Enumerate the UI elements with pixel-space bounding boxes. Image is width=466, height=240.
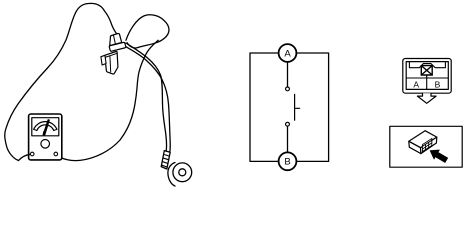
upper barrel seam	[113, 35, 115, 45]
inline connector upper barrel body	[110, 34, 122, 46]
lower barrel side tab	[101, 55, 106, 65]
cavity profile	[409, 62, 445, 68]
relay body right face	[421, 137, 437, 154]
wire loop	[126, 15, 169, 48]
upper switch contact	[286, 87, 290, 91]
svg-text:B: B	[435, 80, 441, 90]
inline connector lower barrel	[105, 51, 118, 74]
twin-line wire to ring terminal (left line)	[126, 43, 167, 151]
cell divider line	[406, 78, 448, 89]
lower barrel seam	[109, 56, 112, 72]
switch lever	[295, 94, 300, 120]
terminal B circle	[279, 152, 297, 170]
svg-text:B: B	[284, 157, 290, 168]
meter left terminal	[30, 152, 34, 156]
ohmmeter body	[29, 114, 62, 160]
wire from A to upper contact	[287, 62, 289, 87]
meter knob	[41, 140, 50, 149]
twin-line wire to ring terminal (right line)	[125, 46, 170, 151]
harness blob outline	[5, 3, 119, 160]
svg-text:A: A	[284, 48, 291, 59]
ring terminal outer circle	[173, 163, 192, 182]
relay body left face	[409, 141, 421, 153]
wire from lower contact to B	[287, 126, 289, 152]
connector pinout inner face	[406, 62, 448, 90]
ring terminal inner hole	[179, 169, 186, 176]
relay body top face	[409, 131, 437, 148]
circuit test box	[250, 53, 329, 161]
meter scale arcs	[34, 122, 57, 130]
ring terminal washer edge (crescent)	[168, 163, 175, 187]
ohmmeter display window	[32, 118, 59, 136]
pointer arrow	[430, 150, 447, 162]
component view box	[390, 126, 462, 167]
test lead wire from loop to meter right terminal	[58, 40, 159, 160]
terminal A circle	[279, 44, 297, 62]
meter right terminal	[54, 152, 58, 156]
terminal X-box	[421, 66, 432, 75]
relay connector face grid	[422, 138, 431, 151]
meter needle	[43, 119, 50, 135]
down arrow	[417, 93, 436, 103]
meter pivot stub	[43, 132, 45, 135]
crimp barrel with hatching	[161, 151, 170, 169]
lower switch contact	[286, 122, 290, 126]
stub below X-box	[426, 75, 428, 78]
lower barrel rim line	[105, 53, 117, 57]
connector pinout outer shell	[403, 59, 451, 94]
connector flange	[109, 42, 126, 51]
svg-text:A: A	[413, 80, 419, 90]
meter left lead wire	[19, 154, 31, 160]
